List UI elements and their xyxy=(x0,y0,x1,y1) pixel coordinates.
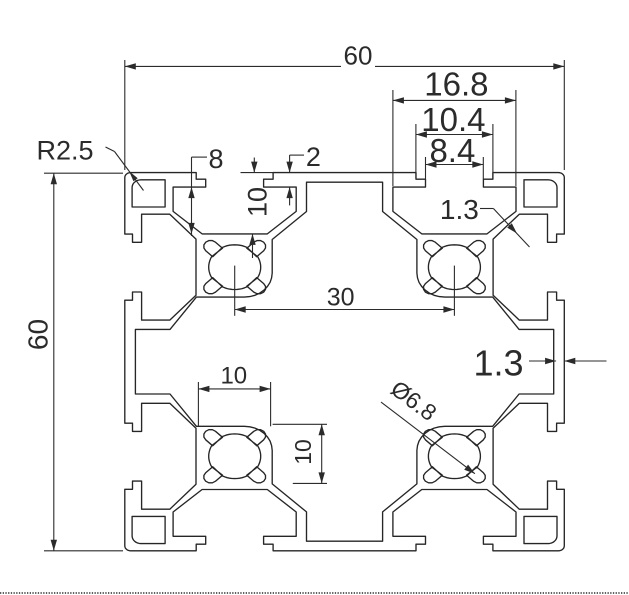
dimension 10.4 xyxy=(415,124,417,179)
svg-text:10: 10 xyxy=(290,439,316,465)
central cavity xyxy=(135,182,553,541)
dotted border line bottom xyxy=(0,592,629,594)
dimension 60 top xyxy=(124,60,126,170)
corner box hole top-left xyxy=(132,180,165,207)
dimension 10 boss height xyxy=(273,423,327,425)
svg-text:30: 30 xyxy=(327,284,355,312)
clover screw hole bottom-right xyxy=(424,430,486,483)
svg-text:8: 8 xyxy=(208,144,223,174)
dimension 10 boss width xyxy=(197,382,199,426)
extension line over slot mouth xyxy=(241,172,274,174)
dimension 10 slot total depth xyxy=(253,158,255,173)
corner box hole top-right xyxy=(524,180,557,207)
corner box hole bottom-right xyxy=(524,516,557,543)
svg-text:10: 10 xyxy=(220,363,247,390)
outer profile boundary with 8 T-slots xyxy=(125,173,565,551)
hole diameter 6.8 xyxy=(381,402,475,474)
svg-text:16.8: 16.8 xyxy=(424,66,488,103)
svg-text:10: 10 xyxy=(243,187,273,217)
svg-text:R2.5: R2.5 xyxy=(37,136,94,166)
svg-text:60: 60 xyxy=(23,319,54,350)
dimension 30 slot spacing xyxy=(234,266,236,316)
svg-text:60: 60 xyxy=(344,41,373,71)
wall thickness 1.3 right xyxy=(529,360,556,362)
svg-text:1.3: 1.3 xyxy=(473,343,523,384)
svg-text:8.4: 8.4 xyxy=(429,132,475,169)
svg-text:1.3: 1.3 xyxy=(440,194,479,225)
svg-text:2: 2 xyxy=(306,142,321,172)
clover screw hole bottom-left xyxy=(204,430,266,483)
dimension 60 left xyxy=(44,172,123,174)
dimension 8.4 xyxy=(425,157,427,179)
corner box hole bottom-left xyxy=(132,516,165,543)
clover screw hole top-right xyxy=(424,241,486,294)
dimension 16.8 xyxy=(392,90,394,186)
clover screw hole top-left xyxy=(204,241,266,294)
